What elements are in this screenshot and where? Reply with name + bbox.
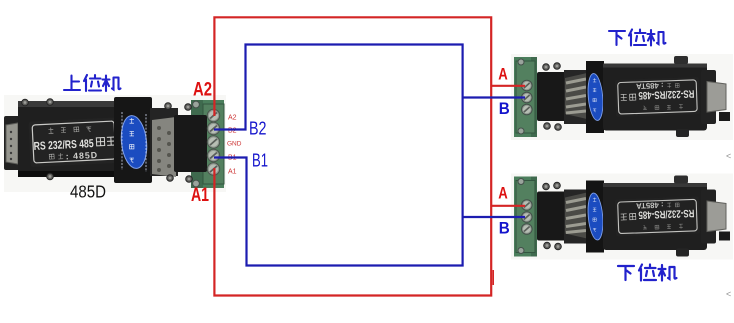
svg-text:A2: A2 [193,79,212,101]
node label A (slave #1) [498,64,508,83]
mid black block with blue oval logo [114,97,152,183]
edge mark top [726,151,731,161]
wire A branch to slave #2 [491,205,525,207]
svg-text:<: < [726,289,731,299]
svg-text:A: A [498,64,508,83]
wire B branch to slave #1 [463,96,525,98]
DB9 male pins section [150,108,178,177]
svg-text:B2: B2 [249,118,267,139]
dark type label with white border [28,117,119,167]
svg-text:<: < [726,151,731,161]
svg-text:485D: 485D [70,182,106,202]
svg-text:B1: B1 [252,150,268,171]
wire B branch to slave #2 [463,216,525,218]
svg-text:: 485D: : 485D [65,150,98,162]
bolts on top edge of shell [22,99,54,180]
black main shell [18,101,118,177]
pin label B1 (small) [228,155,237,162]
tiny white side text [121,112,123,170]
wire B loop (blue bus from B2/B1) [214,45,463,266]
svg-text:B: B [499,219,510,238]
svg-text:A2: A2 [228,115,237,122]
node label A1 [191,184,209,206]
node label B2 [249,118,267,139]
label 下位机 (slave #1, top) [609,30,666,46]
DB9 female connector left [4,116,20,170]
label row: 型号: 485D [49,153,63,160]
svg-text:A: A [498,183,508,202]
pin label A2 (small) [228,115,237,122]
terminal screws 1-5 (A2,B2,GND,B1,A1) [207,109,219,175]
node label B (slave #1) [499,99,510,118]
svg-text:B: B [499,99,510,118]
converter U1 (host RS-232/RS-485, left photo) [4,95,242,192]
body shadow halo [4,95,226,192]
big black DB9 shell over pcb [165,103,207,183]
node label B1 [252,150,268,171]
node label A (slave #2) [498,183,508,202]
wire stub artifact on red right edge [492,270,494,285]
svg-text:A1: A1 [228,169,237,176]
wire A loop (red bus from A2/A1) [214,17,491,295]
svg-text:GND: GND [227,141,242,148]
edge mark bottom [726,289,731,299]
wire A branch to slave #1 [491,85,525,87]
label row: 波士电子 [48,126,91,134]
converter U3 (slave #2, bottom-right photo) [511,174,733,260]
pin label GND (small) [227,141,242,148]
pin label A1 (small) [228,169,237,176]
label 485D under U1 [70,182,106,202]
pin label B2 (small) [228,128,237,135]
node label B (slave #2) [499,219,510,238]
svg-text:A1: A1 [191,184,209,206]
converter U2 (slave #1, top-right photo) [511,54,733,140]
green terminal block TB1 [191,100,224,188]
label 上位机 (host) [64,75,121,91]
node label A2 [193,79,212,101]
label 下位机 (slave #2, bottom) [618,265,677,281]
